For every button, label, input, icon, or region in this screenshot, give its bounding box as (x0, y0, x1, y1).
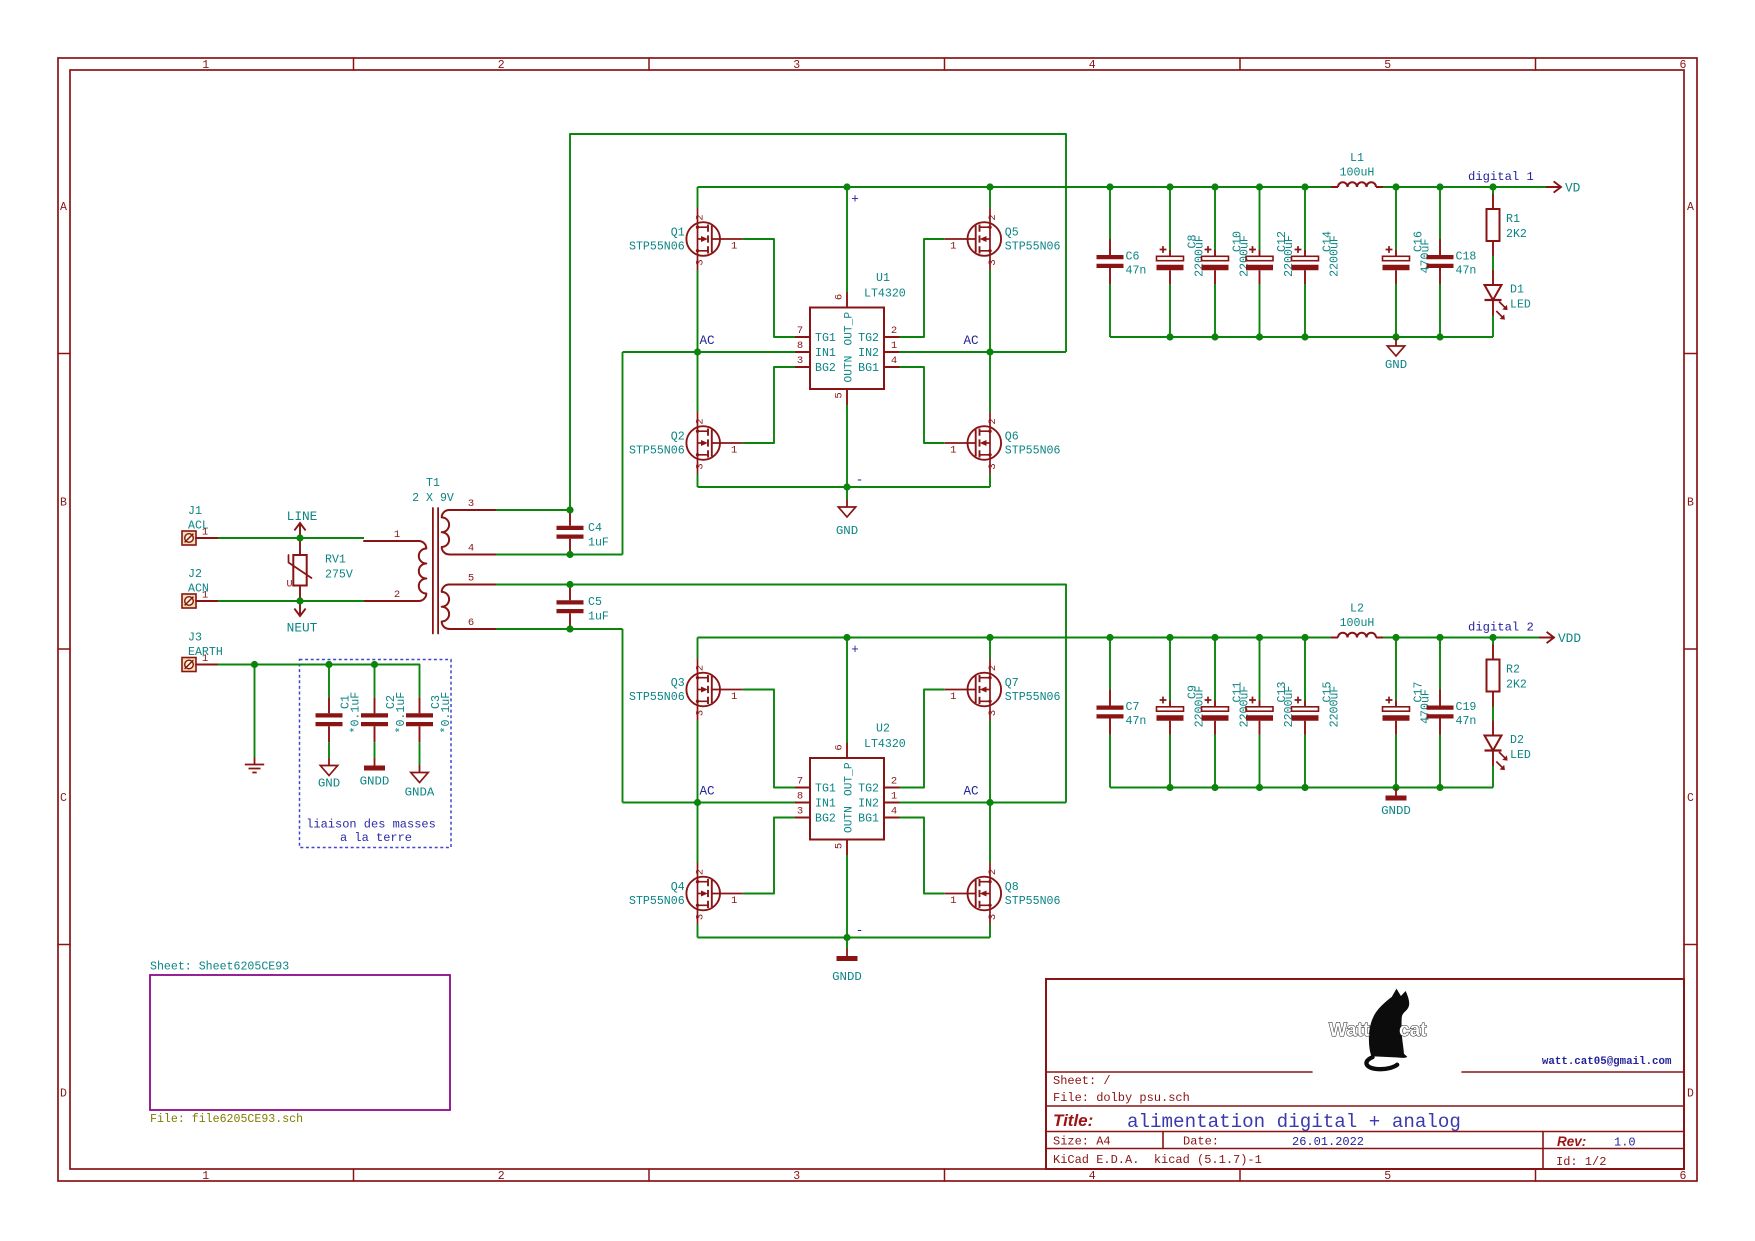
svg-text:2: 2 (394, 589, 400, 601)
wire (254, 665, 256, 758)
wire (989, 803, 991, 863)
wire (1395, 187, 1397, 250)
wire (900, 802, 1067, 804)
wire (900, 818, 945, 894)
earth ground (245, 758, 264, 773)
wire (989, 352, 991, 412)
svg-text:OUTN: OUTN (844, 356, 856, 383)
wire (698, 186, 1332, 188)
hierarchical label VDD (1539, 631, 1581, 646)
svg-text:1: 1 (394, 529, 400, 541)
svg-text:2: 2 (498, 1170, 505, 1183)
junction (1436, 183, 1443, 190)
wire (846, 855, 848, 938)
svg-text:1.0: 1.0 (1614, 1136, 1636, 1150)
svg-text:VDD: VDD (1558, 631, 1581, 646)
svg-text:STP55N06: STP55N06 (629, 445, 685, 458)
svg-text:2: 2 (694, 665, 706, 671)
net label - (856, 474, 864, 488)
capacitor C14 (1292, 231, 1342, 284)
capacitor C9 (1157, 685, 1207, 734)
svg-text:3: 3 (694, 710, 706, 716)
svg-text:2: 2 (694, 214, 706, 220)
wire (570, 134, 1066, 510)
svg-text:2200uF: 2200uF (1329, 686, 1342, 728)
net label + (851, 193, 859, 207)
junction (325, 661, 332, 668)
varistor RV1 (286, 538, 352, 601)
junction (1436, 784, 1443, 791)
capacitor C2 (361, 692, 408, 743)
svg-text:2K2: 2K2 (1506, 228, 1527, 241)
wire (1304, 284, 1306, 337)
wire (697, 721, 699, 803)
wire (496, 554, 623, 556)
capacitor C13 (1246, 682, 1296, 735)
svg-text:100uH: 100uH (1340, 167, 1375, 180)
svg-text:STP55N06: STP55N06 (629, 895, 685, 908)
wire (1304, 638, 1306, 701)
junction (843, 183, 850, 190)
transistor Q5 (945, 208, 1061, 270)
wire (1439, 735, 1441, 788)
svg-text:*0.1uF: *0.1uF (350, 692, 363, 734)
junction (566, 625, 573, 632)
svg-text:3: 3 (797, 355, 803, 367)
junction (1392, 333, 1399, 340)
hierarchical label LINE (287, 509, 318, 538)
wire (1214, 187, 1216, 250)
svg-text:C18: C18 (1456, 251, 1477, 264)
junction (1106, 634, 1113, 641)
svg-text:NEUT: NEUT (287, 621, 318, 636)
svg-text:LINE: LINE (287, 509, 318, 524)
svg-text:U2: U2 (876, 723, 890, 736)
junction (1106, 183, 1113, 190)
svg-text:GND: GND (318, 777, 340, 791)
svg-text:1: 1 (202, 59, 209, 72)
svg-text:4: 4 (891, 355, 897, 367)
capacitor C17 (1383, 682, 1433, 735)
svg-text:3: 3 (694, 914, 706, 920)
transistor Q2 (629, 412, 743, 474)
svg-text:STP55N06: STP55N06 (1005, 445, 1061, 458)
svg-text:2: 2 (987, 214, 999, 220)
junction (1301, 333, 1308, 340)
capacitor C15 (1292, 682, 1342, 735)
svg-text:Id: 1/2: Id: 1/2 (1556, 1155, 1606, 1169)
svg-text:GND: GND (836, 524, 858, 538)
junction (1256, 183, 1263, 190)
wire (1383, 637, 1539, 639)
junction (986, 348, 993, 355)
svg-text:3: 3 (793, 1170, 800, 1183)
svg-text:AC: AC (964, 785, 980, 799)
svg-text:4: 4 (1089, 59, 1096, 72)
junction (371, 661, 378, 668)
svg-text:B: B (1687, 496, 1694, 509)
svg-text:2 X 9V: 2 X 9V (412, 492, 454, 505)
svg-text:BG1: BG1 (858, 813, 879, 826)
svg-text:digital 1: digital 1 (1468, 170, 1534, 184)
power GND (836, 500, 858, 539)
junction (1392, 634, 1399, 641)
svg-text:7: 7 (797, 325, 803, 337)
wire (218, 537, 364, 539)
connector J2 (182, 568, 218, 608)
svg-text:Watt: Watt (1329, 1020, 1370, 1041)
svg-text:3: 3 (468, 498, 474, 510)
wire (1109, 735, 1111, 788)
wire (1492, 187, 1494, 194)
svg-text:1: 1 (891, 340, 897, 352)
svg-text:File: file6205CE93.sch: File: file6205CE93.sch (150, 1113, 303, 1126)
svg-text:STP55N06: STP55N06 (1005, 895, 1061, 908)
transistor Q6 (945, 412, 1061, 474)
wire (1214, 284, 1216, 337)
wire (496, 628, 623, 630)
wire (846, 487, 848, 500)
svg-text:2: 2 (987, 869, 999, 875)
svg-text:LED: LED (1510, 299, 1531, 312)
LED D2 (1485, 721, 1531, 771)
svg-text:R2: R2 (1506, 664, 1520, 677)
junction (1166, 333, 1173, 340)
wire (623, 802, 796, 804)
svg-text:STP55N06: STP55N06 (1005, 241, 1061, 254)
wire (846, 938, 848, 949)
svg-text:3: 3 (987, 259, 999, 265)
hierarchical label NEUT (287, 601, 318, 636)
svg-text:GND: GND (1385, 358, 1407, 372)
wire (1492, 316, 1494, 338)
svg-text:TG1: TG1 (815, 783, 836, 796)
wire (697, 187, 699, 208)
junction (566, 551, 573, 558)
capacitor C16 (1383, 231, 1433, 284)
svg-text:Q7: Q7 (1005, 677, 1019, 690)
wire (697, 352, 699, 412)
wire (1304, 187, 1306, 250)
net label - (856, 924, 864, 938)
wire (743, 690, 795, 788)
svg-text:1: 1 (202, 527, 208, 539)
junction (1211, 183, 1218, 190)
junction (566, 581, 573, 588)
junction (1211, 333, 1218, 340)
net label AC (700, 785, 716, 799)
capacitor C8 (1157, 235, 1207, 284)
svg-text:D: D (1687, 1087, 1694, 1100)
svg-text:R1: R1 (1506, 213, 1520, 226)
power GNDA (405, 765, 435, 800)
svg-text:AC: AC (700, 785, 716, 799)
wire (1169, 735, 1171, 788)
wire (1110, 787, 1493, 789)
net label AC (964, 785, 980, 799)
junction (986, 634, 993, 641)
transistor Q1 (629, 208, 743, 270)
transistor Q4 (629, 863, 743, 925)
wire (697, 474, 699, 487)
wire (1304, 735, 1306, 788)
wire (1214, 638, 1216, 701)
svg-text:1: 1 (891, 791, 897, 803)
svg-text:1: 1 (731, 691, 737, 703)
svg-text:TG2: TG2 (858, 332, 879, 345)
svg-text:26.01.2022: 26.01.2022 (1292, 1135, 1364, 1149)
capacitor C19 (1427, 690, 1477, 735)
svg-text:5: 5 (468, 573, 474, 585)
junction (1166, 183, 1173, 190)
svg-text:C: C (60, 792, 67, 805)
svg-text:1: 1 (731, 241, 737, 253)
junction (1256, 634, 1263, 641)
junction (1301, 634, 1308, 641)
svg-text:J2: J2 (188, 568, 202, 581)
svg-text:3: 3 (987, 710, 999, 716)
svg-text:6: 6 (1680, 1170, 1687, 1183)
capacitor C3 (406, 692, 453, 743)
junction (1211, 784, 1218, 791)
svg-text:1: 1 (731, 445, 737, 457)
wire (1492, 256, 1494, 270)
wire (698, 637, 1332, 639)
capacitor C11 (1202, 682, 1252, 735)
svg-text:1: 1 (202, 1170, 209, 1183)
wire (697, 638, 699, 659)
svg-text:digital 2: digital 2 (1468, 621, 1534, 635)
svg-text:47n: 47n (1126, 715, 1147, 728)
wire (743, 367, 795, 443)
capacitor C12 (1246, 231, 1296, 284)
wire (697, 270, 699, 352)
junction (1301, 784, 1308, 791)
svg-text:100uH: 100uH (1340, 617, 1375, 630)
wire (496, 509, 570, 511)
svg-text:Q4: Q4 (671, 881, 685, 894)
wire (328, 742, 330, 758)
svg-text:4: 4 (891, 806, 897, 818)
power GND (1385, 339, 1407, 373)
svg-text:VD: VD (1565, 181, 1581, 196)
wire (900, 351, 1067, 353)
svg-text:2K2: 2K2 (1506, 679, 1527, 692)
svg-text:GNDD: GNDD (832, 970, 862, 984)
junction (1489, 183, 1496, 190)
svg-text:liaison des masses: liaison des masses (306, 818, 436, 832)
svg-text:2200uF: 2200uF (1329, 235, 1342, 277)
svg-text:Sheet: /: Sheet: / (1053, 1074, 1111, 1088)
svg-text:C4: C4 (588, 522, 602, 535)
junction (1392, 183, 1399, 190)
junction (843, 934, 850, 941)
junction (1489, 634, 1496, 641)
wire (1109, 638, 1111, 690)
svg-text:a la terre: a la terre (340, 831, 412, 845)
wire (846, 638, 848, 744)
wire (743, 239, 795, 337)
transistor Q3 (629, 659, 743, 721)
capacitor C10 (1202, 231, 1252, 284)
svg-text:1: 1 (950, 691, 956, 703)
svg-text:Rev:: Rev: (1557, 1134, 1586, 1149)
junction (1436, 634, 1443, 641)
svg-text:Q1: Q1 (671, 227, 685, 240)
note box liaison des masses a la terre (300, 660, 452, 848)
wire (1109, 187, 1111, 239)
svg-text:5: 5 (1384, 59, 1391, 72)
svg-text:3: 3 (694, 463, 706, 469)
svg-text:L2: L2 (1350, 603, 1364, 616)
svg-text:IN2: IN2 (858, 347, 879, 360)
svg-text:C19: C19 (1456, 701, 1477, 714)
svg-text:47n: 47n (1126, 265, 1147, 278)
svg-text:OUT_P: OUT_P (844, 312, 856, 346)
svg-text:Q6: Q6 (1005, 431, 1019, 444)
svg-text:LT4320: LT4320 (864, 738, 906, 751)
wire (1259, 284, 1261, 337)
power GND (318, 758, 340, 791)
power GNDD (832, 949, 862, 985)
wire (1214, 735, 1216, 788)
svg-text:3: 3 (797, 806, 803, 818)
junction (843, 634, 850, 641)
logo Watt cat (1329, 989, 1427, 1070)
svg-text:Title:: Title: (1053, 1111, 1093, 1130)
wire (697, 925, 699, 938)
svg-text:STP55N06: STP55N06 (1005, 691, 1061, 704)
svg-text:J1: J1 (188, 505, 202, 518)
svg-text:TG1: TG1 (815, 332, 836, 345)
svg-text:U: U (286, 580, 292, 591)
capacitor C6 (1097, 239, 1147, 284)
svg-text:IN1: IN1 (815, 798, 836, 811)
svg-text:2: 2 (891, 776, 897, 788)
junction (251, 661, 258, 668)
svg-text:4: 4 (468, 543, 474, 555)
svg-text:cat: cat (1399, 1020, 1427, 1041)
wire (1110, 336, 1493, 338)
svg-text:6: 6 (834, 294, 846, 300)
connector J3 (182, 632, 223, 672)
svg-text:AC: AC (700, 334, 716, 348)
svg-text:C7: C7 (1126, 701, 1140, 714)
wire (846, 187, 848, 293)
wire (1395, 638, 1397, 701)
wire (1383, 186, 1546, 188)
svg-text:D: D (60, 1087, 67, 1100)
svg-text:BG2: BG2 (815, 813, 836, 826)
svg-text:6: 6 (1680, 59, 1687, 72)
wire (1492, 638, 1494, 645)
junction (1256, 784, 1263, 791)
svg-text:C6: C6 (1126, 251, 1140, 264)
svg-text:4: 4 (1089, 1170, 1096, 1183)
wire (697, 803, 699, 863)
svg-text:1: 1 (202, 653, 208, 665)
wire (900, 690, 945, 788)
junction (843, 483, 850, 490)
svg-text:TG2: TG2 (858, 783, 879, 796)
wire (1395, 284, 1397, 337)
junction (1436, 333, 1443, 340)
wire (698, 937, 991, 939)
svg-text:3: 3 (987, 914, 999, 920)
IC U2 LT4320 (795, 723, 906, 856)
wire (622, 629, 624, 803)
svg-text:Size: A4: Size: A4 (1053, 1135, 1111, 1149)
wire (623, 351, 796, 353)
junction (296, 597, 303, 604)
transformer T1 (364, 477, 496, 634)
wire (900, 239, 945, 337)
svg-text:LED: LED (1510, 749, 1531, 762)
svg-text:C: C (1687, 792, 1694, 805)
wire (1395, 735, 1397, 788)
svg-text:Date:: Date: (1183, 1135, 1219, 1149)
wire (1395, 788, 1397, 789)
wire (328, 665, 330, 698)
svg-text:BG1: BG1 (858, 362, 879, 375)
resistor R2 (1487, 645, 1527, 707)
wire (218, 665, 420, 698)
svg-text:1: 1 (950, 895, 956, 907)
svg-text:Q8: Q8 (1005, 881, 1019, 894)
wire (1439, 284, 1441, 337)
svg-text:1uF: 1uF (588, 537, 609, 550)
svg-text:A: A (1687, 201, 1694, 214)
LED D1 (1485, 270, 1531, 320)
svg-text:2: 2 (694, 418, 706, 424)
svg-text:1uF: 1uF (588, 611, 609, 624)
svg-text:5: 5 (834, 392, 846, 398)
wire (989, 270, 991, 352)
wire (989, 187, 991, 208)
net label + (851, 643, 859, 657)
svg-text:RV1: RV1 (325, 554, 346, 567)
junction (1211, 634, 1218, 641)
svg-text:-: - (856, 924, 864, 938)
svg-text:6: 6 (834, 744, 846, 750)
svg-text:2: 2 (987, 665, 999, 671)
net label AC (964, 334, 980, 348)
svg-text:*0.1uF: *0.1uF (395, 692, 408, 734)
wire (374, 665, 376, 698)
svg-text:5: 5 (834, 843, 846, 849)
svg-text:6: 6 (468, 617, 474, 629)
svg-text:8: 8 (797, 791, 803, 803)
svg-text:D1: D1 (1510, 284, 1524, 297)
junction (1301, 183, 1308, 190)
svg-text:alimentation digital + analog: alimentation digital + analog (1127, 1111, 1461, 1133)
resistor R1 (1487, 194, 1527, 256)
svg-text:7: 7 (797, 776, 803, 788)
IC U1 LT4320 (795, 272, 906, 405)
wire (1169, 187, 1171, 250)
net label AC (700, 334, 716, 348)
junction (566, 506, 573, 513)
wire (989, 474, 991, 487)
svg-text:B: B (60, 496, 67, 509)
svg-text:GNDD: GNDD (1381, 804, 1411, 818)
svg-text:-: - (856, 474, 864, 488)
svg-text:8: 8 (797, 340, 803, 352)
svg-text:OUTN: OUTN (844, 806, 856, 833)
svg-text:U1: U1 (876, 272, 890, 285)
svg-text:3: 3 (793, 59, 800, 72)
svg-text:OUT_P: OUT_P (844, 762, 856, 796)
